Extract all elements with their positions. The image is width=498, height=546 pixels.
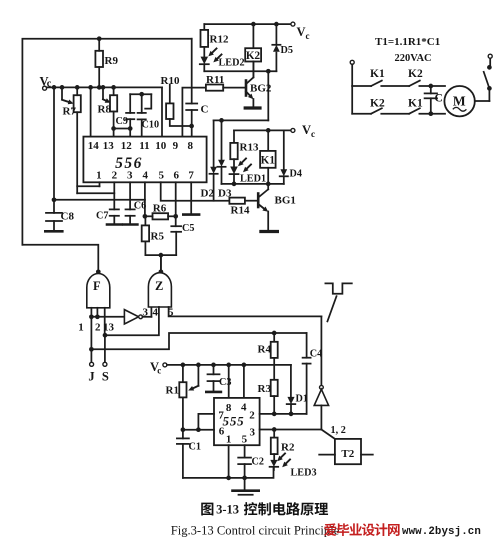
node Z top dot — [159, 269, 164, 274]
wire R7-pin1 jog — [77, 185, 99, 187]
op-amp U2 555 IC box — [214, 398, 260, 445]
wire F input 1 — [90, 308, 92, 317]
svg-text:12: 12 — [121, 140, 133, 152]
svg-text:LED3: LED3 — [291, 468, 317, 479]
svg-text:6: 6 — [219, 426, 225, 438]
wire pin7 555 — [198, 414, 214, 430]
resistor R5 — [144, 216, 146, 225]
wire R11 to BG2 base — [223, 87, 246, 89]
svg-text:D5: D5 — [281, 45, 293, 56]
contact K1 row1 — [371, 81, 382, 86]
wire net W3 — [91, 333, 306, 349]
ground BG1 — [261, 230, 278, 233]
svg-text:F: F — [93, 279, 101, 293]
svg-text:14: 14 — [88, 140, 100, 152]
svg-text:2: 2 — [95, 322, 101, 334]
svg-text:R5: R5 — [151, 231, 165, 243]
svg-text:R11: R11 — [206, 74, 224, 86]
svg-text:R7: R7 — [63, 106, 77, 118]
node mains terminal — [350, 60, 354, 64]
capacitor C10 — [141, 94, 143, 113]
wire C8 branch — [53, 87, 55, 199]
wire switch stub — [489, 58, 491, 67]
LED LED3 — [270, 460, 277, 467]
capacitor C4 — [306, 333, 308, 358]
svg-text:R4: R4 — [258, 344, 272, 356]
wire pin14 stub — [90, 87, 92, 136]
resistor R13 — [233, 130, 235, 143]
ground C3 — [206, 391, 221, 394]
wire pin2 555 — [260, 413, 307, 415]
svg-text:D2: D2 — [201, 188, 215, 200]
node switch terminal — [488, 54, 492, 58]
resistor R11 — [206, 85, 223, 91]
wire pin8 stub 555 — [228, 365, 230, 398]
wire pin10 stub — [161, 87, 163, 136]
svg-text:9: 9 — [173, 140, 179, 152]
svg-text:220VAC: 220VAC — [395, 53, 432, 64]
svg-text:M: M — [453, 94, 466, 109]
svg-text:LED1: LED1 — [240, 174, 266, 185]
wire R8-C9 jog — [114, 128, 131, 130]
node R10-pin8 dot — [189, 124, 194, 129]
relay K2 box — [252, 24, 254, 48]
node R6 right — [173, 214, 178, 219]
svg-text:K2: K2 — [370, 98, 385, 110]
svg-text:10: 10 — [155, 140, 167, 152]
motor M — [444, 86, 474, 116]
capacitor C — [186, 103, 197, 105]
wire contact row1 — [352, 85, 371, 87]
wire S line — [104, 335, 106, 362]
contact K1 row2 — [409, 108, 420, 113]
transistor BG1 — [257, 194, 260, 208]
wire K2 top rail — [204, 23, 291, 25]
svg-text:K1: K1 — [408, 98, 423, 110]
wire F input 13 — [104, 308, 106, 335]
svg-text:R12: R12 — [210, 34, 229, 46]
ground C6 — [123, 223, 137, 226]
svg-text:1, 2: 1, 2 — [331, 425, 346, 436]
capacitor C7 — [110, 208, 119, 210]
svg-text:2: 2 — [249, 410, 255, 422]
diode D1 — [290, 365, 292, 397]
capacitor C3 — [213, 365, 215, 374]
wire C10 right leg — [145, 94, 151, 108]
wire net-B horizontal — [214, 119, 269, 121]
wire pin11 top bar — [130, 93, 151, 95]
wire pin3 stub — [129, 182, 131, 209]
svg-text:8: 8 — [188, 140, 194, 152]
resistor R14 — [229, 198, 245, 204]
svg-text:c: c — [306, 31, 310, 41]
wire pin3 555 — [260, 429, 322, 431]
node R8 jog dot — [111, 126, 116, 131]
node R4 tap — [272, 331, 277, 336]
wire motor right — [475, 100, 490, 102]
svg-text:555: 555 — [223, 414, 245, 429]
LED LED2 — [201, 57, 209, 65]
svg-text:K1: K1 — [261, 155, 276, 167]
capacitor C motor — [430, 86, 432, 93]
capacitor C1 — [182, 430, 184, 439]
svg-text:K1: K1 — [370, 68, 385, 80]
svg-text:Z: Z — [155, 279, 163, 293]
svg-text:3: 3 — [250, 427, 256, 439]
svg-text:V: V — [297, 25, 306, 39]
svg-text:7: 7 — [218, 410, 224, 422]
svg-text:LED2: LED2 — [219, 58, 245, 69]
wire pin7 stub — [190, 182, 192, 214]
svg-text:S: S — [102, 370, 109, 384]
junction K1 rail dots — [266, 128, 271, 133]
svg-text:C4: C4 — [310, 349, 322, 360]
contact K2 row2 — [371, 108, 382, 113]
wire pin1 stub — [99, 182, 101, 186]
relay K1 box — [267, 130, 269, 151]
wire T2 right stub — [361, 454, 373, 456]
wire pin2 stub — [113, 182, 115, 209]
diode D5 — [275, 24, 277, 45]
wire F gate top — [22, 245, 98, 273]
svg-text:R3: R3 — [258, 383, 272, 395]
contact K2 row1 — [409, 81, 420, 86]
wire C branch vertical — [191, 39, 193, 104]
wire Vc rail — [47, 86, 162, 88]
wire pin9-R11 corner — [182, 88, 206, 137]
capacitor C2 — [244, 445, 246, 457]
svg-text:13: 13 — [103, 140, 115, 152]
svg-text:C1: C1 — [189, 442, 201, 453]
svg-text:V: V — [302, 123, 311, 137]
svg-text:C6: C6 — [134, 201, 146, 212]
svg-text:3: 3 — [142, 307, 148, 319]
wire Z pin5 stub — [169, 307, 322, 316]
capacitor C5 — [171, 225, 181, 227]
svg-text:7: 7 — [188, 170, 194, 182]
node R6 left — [143, 214, 148, 219]
svg-text:4: 4 — [152, 307, 158, 319]
inverter gate — [124, 310, 138, 324]
junction dots Vc rail — [52, 85, 57, 90]
wire Z pin3 riser — [150, 307, 152, 317]
svg-text:5: 5 — [242, 434, 248, 446]
wire to gate Z — [160, 255, 162, 272]
svg-text:5: 5 — [159, 170, 165, 182]
switch blade — [487, 86, 492, 91]
wire 555 bottom rail — [183, 468, 274, 478]
potentiometer R7 — [61, 87, 63, 99]
resistor R3 — [271, 380, 278, 396]
resistor R2 — [273, 430, 275, 438]
gate Z — [148, 273, 171, 307]
svg-text:C9: C9 — [116, 116, 128, 127]
capacitor C9 — [129, 94, 131, 113]
svg-text:BG2: BG2 — [250, 83, 272, 95]
junction K2 rail dots — [251, 22, 256, 27]
svg-text:C10: C10 — [142, 120, 160, 131]
svg-text:1: 1 — [226, 434, 232, 446]
wire net W1 — [91, 316, 124, 318]
diode D4 — [283, 130, 285, 169]
svg-text:8: 8 — [226, 402, 232, 414]
svg-text:D4: D4 — [290, 169, 302, 180]
watermark red — [324, 523, 481, 538]
svg-text:3: 3 — [127, 170, 133, 182]
wire R7-pin2 jog — [77, 192, 114, 194]
wire T2 left stub — [319, 454, 335, 456]
gate F — [87, 274, 110, 308]
svg-text:6: 6 — [173, 170, 179, 182]
svg-text:R1: R1 — [166, 385, 179, 397]
svg-text:C3: C3 — [219, 377, 231, 388]
diode D2 — [213, 120, 215, 166]
capacitor C8 — [53, 200, 55, 213]
svg-text:BG1: BG1 — [275, 195, 296, 207]
potentiometer R1 — [182, 365, 184, 382]
wire R14 to BG1 — [245, 200, 257, 202]
transformer T2 box — [335, 439, 361, 464]
wire K1 top rail — [234, 129, 291, 131]
node F top dot — [96, 269, 101, 274]
wire pin6 555 — [183, 429, 214, 431]
node Vc terminal 2 — [291, 128, 295, 132]
svg-text:c: c — [157, 366, 161, 376]
wire Z gate top — [160, 255, 162, 272]
wire contact row2 — [352, 113, 371, 115]
wire inverter out — [143, 316, 152, 318]
ground BG2 — [245, 106, 260, 109]
capacitor C6 — [126, 208, 135, 210]
wire K2-netB riser — [267, 71, 269, 120]
svg-text:C7: C7 — [96, 211, 108, 222]
node J terminal — [90, 362, 94, 366]
resistor R6 — [153, 213, 169, 219]
svg-text:C5: C5 — [182, 223, 194, 234]
node switch contact — [487, 65, 492, 70]
ground C8 — [45, 230, 62, 233]
wire pin4 stub 555 — [243, 365, 245, 398]
pulse pointer line — [327, 296, 336, 321]
ground pin7 — [183, 213, 199, 216]
svg-text:R14: R14 — [231, 205, 250, 217]
caption Chinese — [201, 502, 328, 516]
wire pin5 stub — [161, 182, 230, 200]
svg-text:R13: R13 — [240, 142, 259, 154]
svg-text:C8: C8 — [61, 211, 75, 223]
resistor R10 — [169, 85, 171, 104]
resistor R4 — [273, 333, 275, 342]
svg-text:T1=1.1R1*C1: T1=1.1R1*C1 — [375, 36, 440, 48]
svg-text:J: J — [88, 370, 94, 384]
wire Vc rail 555 — [167, 364, 291, 366]
wire top-left rail — [22, 39, 191, 245]
resistor R9 — [95, 51, 103, 67]
wire node-A horizontal — [54, 199, 145, 201]
svg-text:C: C — [201, 104, 209, 116]
ground 555 — [244, 478, 246, 491]
transistor BG2 — [245, 81, 248, 96]
svg-text:www.2bysj.cn: www.2bysj.cn — [402, 526, 481, 538]
wire J line — [90, 317, 92, 363]
node D3 tap — [219, 118, 224, 123]
svg-text:T2: T2 — [341, 448, 354, 460]
junction 555 rail dots — [181, 363, 186, 368]
pulse symbol — [325, 283, 351, 293]
svg-text:4: 4 — [143, 170, 149, 182]
svg-text:1: 1 — [78, 322, 84, 334]
svg-text:R8: R8 — [98, 104, 112, 116]
wire mains left — [351, 64, 353, 113]
resistor R12 — [203, 24, 205, 30]
svg-text:1: 1 — [96, 170, 102, 182]
node Vc terminal 3 — [291, 22, 295, 26]
svg-text:11: 11 — [139, 140, 149, 152]
svg-text:3-13: 3-13 — [216, 503, 239, 517]
wire T2 diagonal — [321, 430, 335, 439]
wire K2 bottom rail — [204, 70, 276, 72]
svg-text:Fig.3-13 Control circuit Princ: Fig.3-13 Control circuit Principle — [171, 524, 340, 538]
svg-text:K2: K2 — [408, 68, 423, 80]
svg-text:4: 4 — [241, 402, 247, 414]
svg-text:2: 2 — [112, 170, 118, 182]
svg-text:R9: R9 — [105, 55, 119, 67]
wire Z pin4 stub — [105, 307, 159, 335]
svg-text:K2: K2 — [246, 50, 261, 62]
wire pin6 stub — [175, 182, 177, 226]
ground C7 — [107, 223, 121, 226]
svg-text:C2: C2 — [252, 457, 264, 468]
wire R5-C5 bottom — [145, 254, 176, 256]
wire F input 2 — [96, 308, 98, 317]
node S terminal — [103, 362, 107, 366]
svg-text:13: 13 — [103, 322, 115, 334]
node junction R9 top — [97, 36, 102, 41]
svg-text:R2: R2 — [281, 442, 295, 454]
op-amp U1 556 IC box — [83, 137, 206, 183]
LED LED1 — [230, 167, 238, 175]
svg-text:c: c — [311, 129, 315, 139]
diode D3 — [221, 120, 223, 159]
wire pin4 stub — [144, 182, 146, 216]
wire net-C bottom — [222, 183, 284, 185]
svg-text:R6: R6 — [153, 203, 167, 215]
node W2a dot — [103, 333, 108, 338]
buffer triangle — [320, 316, 322, 385]
svg-text:C: C — [435, 93, 443, 105]
potentiometer R8 — [102, 87, 104, 99]
wire pin1 stub 555 — [228, 445, 230, 478]
